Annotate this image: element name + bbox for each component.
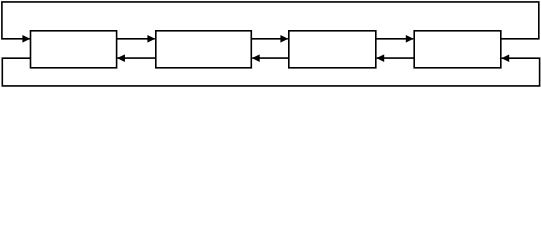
box 2 bbox=[156, 31, 252, 68]
wire: forward arrow box1 to box2 bbox=[117, 38, 155, 40]
wire: backward arrow box3 to box2 bbox=[252, 57, 289, 59]
box 3 bbox=[289, 31, 376, 68]
arrowhead into box 3 left (right-pointing) bbox=[280, 35, 288, 43]
box 4 bbox=[414, 31, 501, 68]
arrowhead into box 1 left (right-pointing) bbox=[22, 35, 30, 43]
wire: top feedback loop box4 right to box1 left bbox=[2, 2, 539, 39]
box 1 bbox=[31, 31, 117, 68]
wire: forward arrow box3 to box4 bbox=[376, 38, 413, 40]
arrowhead into box 2 right (left-pointing) bbox=[252, 54, 260, 62]
arrowhead into box 3 right (left-pointing) bbox=[376, 54, 384, 62]
wire: forward arrow box2 to box3 bbox=[251, 38, 287, 40]
wire: bottom feedback loop box1 left to box4 right bbox=[2, 58, 539, 86]
arrowhead into box 1 right (left-pointing) bbox=[117, 54, 125, 62]
arrowhead into box 4 right (left-pointing) bbox=[501, 54, 509, 62]
wire: backward arrow box4 to box3 bbox=[377, 57, 415, 59]
arrowhead into box 2 left (right-pointing) bbox=[147, 35, 155, 43]
arrowhead into box 4 left (right-pointing) bbox=[406, 35, 414, 43]
wire: backward arrow box2 to box1 bbox=[117, 57, 155, 59]
